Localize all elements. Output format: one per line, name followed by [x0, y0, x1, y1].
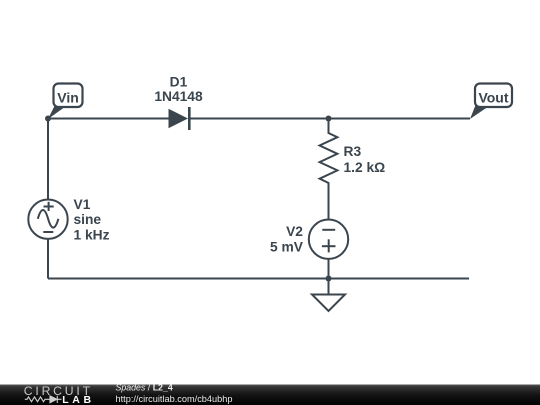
wire top left (Vin node to D1 anode)	[48, 118, 170, 120]
svg-text:R3: R3	[344, 144, 362, 159]
net label Vout	[470, 84, 512, 120]
svg-text:D1: D1	[170, 75, 188, 90]
wire bottom ground rail	[48, 278, 469, 280]
svg-text:V1: V1	[74, 197, 91, 212]
source V1	[28, 200, 67, 239]
ground	[312, 279, 345, 312]
junction dot bottom	[326, 276, 332, 282]
node Vin junction dot	[45, 116, 51, 122]
svg-text:1N4148: 1N4148	[154, 89, 203, 104]
wire V2 to ground junction	[328, 260, 330, 279]
svg-text:1.2 kΩ: 1.2 kΩ	[344, 160, 386, 175]
net label Vin	[48, 84, 83, 120]
svg-text:Vout: Vout	[478, 89, 508, 105]
svg-text:1 kHz: 1 kHz	[74, 228, 110, 243]
source V2	[309, 220, 348, 259]
wire V1 bottom to ground rail	[47, 240, 49, 279]
logo mini schematic	[25, 396, 62, 403]
svg-text:V2: V2	[286, 224, 303, 239]
resistor R3	[320, 119, 338, 220]
svg-text:Spades / L2_4: Spades / L2_4	[116, 382, 173, 392]
svg-text:5 mV: 5 mV	[270, 240, 304, 255]
svg-text:Vin: Vin	[57, 89, 79, 105]
footer bar	[0, 385, 540, 405]
diode D1	[169, 107, 190, 130]
wire left vertical (Vin node to V1)	[47, 119, 49, 200]
junction dot top (R3 tap)	[326, 116, 332, 122]
wire top right (D1 cathode to Vout)	[189, 118, 470, 120]
svg-text:http://circuitlab.com/cb4ubhp: http://circuitlab.com/cb4ubhp	[116, 394, 233, 404]
svg-text:sine: sine	[74, 212, 102, 227]
svg-text:LAB: LAB	[62, 394, 94, 405]
